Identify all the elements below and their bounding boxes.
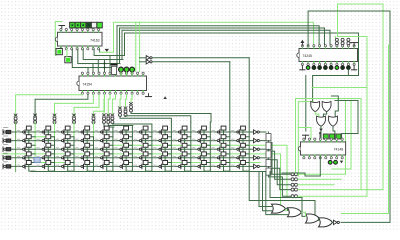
or gate G1 [311, 102, 320, 112]
push button S21 [17, 135, 31, 143]
wire [108, 124, 133, 126]
push button S11 [17, 126, 31, 134]
terminal TP4 [291, 188, 294, 191]
wire [282, 173, 320, 176]
wire bright row link 1 [35, 136, 54, 138]
wire row bus B [152, 61, 229, 63]
resistor RR3 [266, 151, 271, 158]
led L8 [347, 66, 351, 70]
wire [29, 139, 35, 146]
terminal TP3 [291, 183, 294, 186]
wire [29, 147, 35, 154]
arrow marker U4 [340, 161, 343, 164]
wire [204, 165, 210, 172]
push button S55 [95, 161, 109, 169]
pin stub marker [319, 133, 321, 139]
wire column 10 [190, 122, 192, 172]
wire bright data bus top [100, 22, 314, 52]
terminal TP1 [291, 173, 294, 176]
wire [260, 131, 266, 133]
buffer B3 [254, 147, 258, 151]
wire [332, 96, 339, 116]
diode pair DP2 [341, 38, 344, 41]
junction [24, 157, 26, 159]
buffer B2 [254, 138, 258, 142]
wire gate feed 1 [259, 172, 272, 207]
wire bright output d [298, 4, 383, 196]
push button S43 [56, 152, 70, 160]
wire [68, 147, 74, 154]
wire [87, 156, 93, 163]
wire [126, 94, 127, 107]
push button S512 [231, 161, 245, 169]
wire row 5 [11, 165, 254, 167]
wire [120, 117, 171, 123]
wire [260, 157, 266, 159]
wire bright loop b [298, 178, 341, 180]
wire column 8 [151, 124, 153, 172]
wire [55, 22, 62, 56]
terminal T5 [124, 107, 127, 109]
or gate OG2 [288, 208, 302, 217]
wire [319, 219, 320, 221]
arrow marker [163, 96, 166, 99]
wire [333, 221, 334, 223]
buffer B6 [334, 220, 338, 224]
push button S33 [56, 143, 70, 151]
push button S311 [212, 143, 226, 151]
push button S17 [134, 126, 148, 134]
wire [126, 156, 132, 163]
terminal T2 [107, 114, 110, 116]
wire bright frame b [298, 102, 313, 176]
wire gate feed 3 [266, 172, 288, 215]
terminal T4 [119, 107, 122, 109]
wire [243, 165, 249, 172]
op IC U3 74245 [299, 49, 358, 62]
led L10 [334, 160, 338, 164]
push button S42 [37, 152, 51, 160]
wire [117, 26, 319, 45]
led L3 [318, 66, 322, 70]
arrow marker U3 [300, 40, 304, 43]
push button S410 [192, 152, 206, 160]
led L9 [328, 160, 332, 164]
wire [204, 139, 210, 146]
wire [29, 165, 35, 172]
push button S46 [115, 152, 129, 160]
wire [107, 139, 113, 146]
wire [302, 212, 306, 216]
connector CN2 [34, 114, 37, 116]
wire [224, 156, 230, 163]
wire U3 to gates [347, 70, 349, 76]
wire bright row link 2 [114, 145, 287, 196]
wire [165, 147, 171, 154]
wire [107, 156, 113, 163]
led L5 [329, 66, 333, 70]
wire bright right pair [342, 45, 389, 214]
wire [204, 147, 210, 154]
ground U3 right [353, 65, 355, 70]
push button S112 [231, 126, 245, 134]
wire [165, 165, 171, 172]
wire [126, 147, 132, 154]
wire bright frame c [312, 87, 367, 89]
junction [24, 166, 26, 168]
wire bright loop a [298, 101, 346, 174]
terminal T6 [130, 102, 133, 104]
wire bright row link 3 [2, 154, 288, 210]
wire [94, 49, 124, 55]
push button S54 [76, 161, 90, 169]
push button S38 [154, 143, 168, 151]
wire [224, 139, 230, 146]
push button S310 [192, 143, 206, 151]
wire [99, 49, 101, 52]
wire [108, 94, 110, 114]
wire [94, 94, 105, 117]
wire [224, 130, 230, 137]
push button S27 [134, 135, 148, 143]
led D3 [130, 67, 135, 72]
wire bright feed U4 pin2 [298, 128, 311, 140]
wire [269, 160, 292, 185]
push button S411 [212, 152, 226, 160]
ground arrow U1 [105, 49, 109, 52]
wire column 3 [54, 122, 56, 137]
wire [243, 147, 249, 154]
push button S13 [56, 126, 70, 134]
logic probe P1 [56, 49, 62, 55]
push button S212 [231, 135, 245, 143]
wire [315, 112, 319, 116]
led D2 [124, 67, 129, 72]
resistor RR1 [266, 134, 271, 141]
wire [131, 112, 211, 122]
wire [29, 130, 35, 137]
connector CN5 [92, 114, 95, 116]
svg-text:74154: 74154 [83, 83, 93, 87]
or gate G4 [329, 116, 338, 126]
push button S25 [95, 135, 109, 143]
wire [48, 156, 54, 163]
logic probe PB3 [336, 134, 341, 139]
push button S210 [192, 135, 206, 143]
wire [139, 22, 141, 72]
wire [269, 143, 292, 175]
wire column 9 [170, 122, 172, 172]
wire row 1 [11, 131, 254, 133]
push button S39 [173, 143, 187, 151]
push button S59 [173, 161, 187, 169]
or gate OG1 [272, 204, 286, 213]
push button PB0 above U2 [112, 66, 117, 74]
or gate OG3 [306, 214, 320, 223]
push button S58 [154, 161, 168, 169]
wire [146, 130, 152, 137]
wire [48, 147, 54, 154]
wire row bus A [152, 57, 249, 59]
wire [68, 130, 74, 137]
push button S16 [115, 126, 129, 134]
push button S18 [154, 126, 168, 134]
wire [104, 124, 114, 128]
wire [120, 94, 121, 107]
wire bright loop a2 [332, 101, 351, 169]
led L6 [335, 66, 339, 70]
or gate G3 [317, 116, 326, 126]
wire [87, 139, 93, 146]
push button S22 [37, 135, 51, 143]
wire [204, 156, 210, 163]
push button S29 [173, 135, 187, 143]
wire [146, 165, 152, 172]
wire [131, 94, 132, 102]
wire gate feed 4 [270, 172, 306, 217]
junction [24, 148, 26, 150]
wire [335, 37, 337, 39]
buffer gates pair mid [146, 56, 150, 60]
logic probe PB1 [323, 134, 328, 139]
wire [126, 116, 191, 122]
op IC U4 74148 [301, 142, 346, 155]
wire [87, 165, 93, 172]
diode pair DP3 [347, 38, 350, 41]
push button S19 [173, 126, 187, 134]
wire [140, 57, 147, 59]
wire [78, 49, 120, 63]
connector CN3 [53, 114, 56, 116]
wire [165, 130, 171, 137]
wire [107, 165, 113, 172]
push button S53 [56, 161, 70, 169]
or gate G2 [322, 102, 331, 112]
wire [305, 76, 307, 132]
wire column 12 [229, 62, 231, 172]
wire [55, 94, 94, 117]
connector CN1 [14, 114, 17, 116]
wire dark frame d [335, 101, 358, 140]
switch SW5 [2, 164, 4, 169]
logic probe P2 [65, 57, 71, 63]
ground U3 left [301, 65, 303, 70]
wire column 7 [131, 126, 133, 172]
wire bright row link 4 [35, 162, 74, 164]
resistor RR5 [266, 168, 271, 175]
switch SW2 [2, 138, 4, 143]
op IC U2 74154 [79, 76, 147, 91]
wire column 1 [15, 122, 17, 172]
wire [35, 94, 88, 117]
push button S15 [95, 126, 109, 134]
wire drop to U2 pins [104, 60, 106, 75]
switch SW1 [2, 130, 4, 135]
wire [146, 156, 152, 163]
wire [320, 127, 322, 140]
wire [165, 139, 171, 146]
junction [24, 131, 26, 133]
push button S37 [134, 143, 148, 151]
wire gate feed 5 [249, 172, 318, 221]
wire [224, 165, 230, 172]
wire [243, 130, 249, 137]
wire row 3 [11, 148, 254, 150]
wire [185, 156, 191, 163]
svg-text:74245: 74245 [303, 54, 313, 58]
push button S23 [56, 135, 70, 143]
wire [319, 156, 321, 176]
push button S510 [192, 161, 206, 169]
led D1 [119, 67, 124, 72]
wire [112, 123, 151, 126]
wire U1 to U2 bus [72, 49, 117, 67]
wire bright row link 5 [171, 162, 260, 164]
op IC U1 74163 [58, 32, 103, 46]
led L2 [312, 66, 316, 70]
wire [29, 156, 35, 163]
logic probes row above U1 [70, 22, 75, 28]
wire [185, 147, 191, 154]
wire [185, 139, 191, 146]
svg-text:74163: 74163 [90, 38, 100, 42]
push button S57 [134, 161, 148, 169]
push button S56 [115, 161, 129, 169]
push button S51 [17, 161, 31, 169]
wire column 13 [248, 58, 250, 172]
arrow marker G3 out [319, 129, 323, 132]
wire [126, 139, 132, 146]
wire [146, 147, 152, 154]
wire [48, 130, 54, 137]
wire feedback loop [308, 11, 390, 222]
wire [204, 130, 210, 137]
wire [146, 139, 152, 146]
connector CN4 [73, 114, 76, 116]
wire [140, 61, 147, 63]
wire bright loop c [298, 184, 334, 186]
push button S312 [231, 143, 245, 151]
push button S36 [115, 143, 129, 151]
wire [260, 165, 266, 167]
wire matrix bottom rail [31, 171, 270, 173]
led L4 [324, 66, 328, 70]
wire [66, 49, 68, 56]
wire [68, 165, 74, 172]
wire [333, 127, 335, 140]
push button S49 [173, 152, 187, 160]
ground U2 pin right [148, 94, 150, 97]
wire bright verticals to U2 [135, 22, 137, 72]
wire [286, 209, 288, 211]
wire column 2 [34, 122, 36, 163]
wire [125, 33, 359, 102]
buffer B5 [254, 164, 258, 168]
power VCC rail top-left [59, 25, 65, 27]
wire [68, 139, 74, 146]
push button S48 [154, 152, 168, 160]
push button S26 [115, 135, 129, 143]
buffer B1 [254, 130, 258, 134]
push button S111 [212, 126, 226, 134]
wire U2 fanout to columns [16, 94, 83, 117]
wire [120, 28, 325, 45]
push button S511 [212, 161, 226, 169]
push button S211 [212, 135, 226, 143]
push button S14 [76, 126, 90, 134]
led L1 [306, 66, 310, 70]
wire row 2 [11, 140, 254, 142]
wire [107, 130, 113, 137]
wire [260, 148, 266, 150]
wire [185, 165, 191, 172]
highlight selected button [34, 157, 40, 162]
terminal T3 [111, 114, 114, 116]
wire [83, 49, 123, 59]
wire [243, 156, 249, 163]
diode pair DP1 [335, 38, 338, 41]
wire [87, 130, 93, 137]
wire row 4 [11, 157, 254, 159]
wire [103, 94, 106, 114]
wire [269, 177, 292, 196]
push button S412 [231, 152, 245, 160]
resistor RR2 [266, 142, 271, 149]
push button S31 [17, 143, 31, 151]
wire [74, 94, 99, 117]
wire [48, 139, 54, 146]
wire [126, 130, 132, 137]
push button S24 [76, 135, 90, 143]
push button S52 [37, 161, 51, 169]
wire [243, 139, 249, 146]
wire [269, 151, 292, 179]
wire [112, 94, 115, 114]
led L7 [341, 66, 345, 70]
wire gate feed 2 [263, 172, 272, 211]
wire [165, 156, 171, 163]
power VCC U4 [303, 134, 309, 136]
svg-text:74148: 74148 [334, 148, 344, 152]
wire column 11 [209, 122, 211, 172]
push button S34 [76, 143, 90, 151]
junction [24, 140, 26, 142]
push button S32 [37, 143, 51, 151]
wire [224, 147, 230, 154]
wire column 4 [73, 122, 75, 137]
wire column 5 [93, 122, 95, 137]
terminal TP5 [291, 195, 294, 198]
wire [185, 130, 191, 137]
switch SW4 [2, 155, 4, 160]
push button S28 [154, 135, 168, 143]
push button S44 [76, 152, 90, 160]
wire [323, 112, 326, 116]
push button S45 [95, 152, 109, 160]
resistor RR4 [266, 159, 271, 166]
power VCC U3 [351, 42, 358, 44]
buffer B4 [254, 156, 258, 160]
wire [87, 147, 93, 154]
logic probe PB2 [330, 134, 335, 139]
push button S12 [37, 126, 51, 134]
wire [122, 30, 330, 45]
wire bright frame a [296, 99, 362, 190]
push button S41 [17, 152, 31, 160]
terminal TP2 [291, 178, 294, 181]
wire [68, 156, 74, 163]
wire [260, 140, 266, 142]
